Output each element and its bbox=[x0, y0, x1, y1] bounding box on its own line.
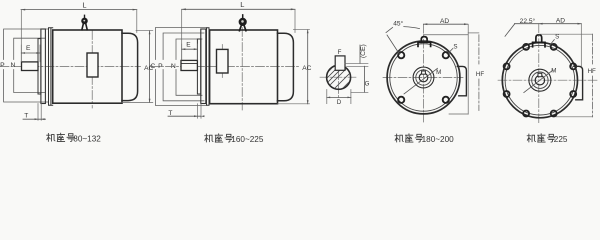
bottom tangent extension bbox=[556, 116, 593, 118]
bottom tangent extension bbox=[449, 113, 468, 115]
svg-text:P: P bbox=[0, 62, 5, 69]
dimension T bbox=[197, 104, 201, 119]
svg-text:AC: AC bbox=[302, 65, 311, 72]
bolt hole bottom-right bbox=[443, 97, 449, 103]
svg-text:AD: AD bbox=[440, 18, 449, 25]
svg-text:E: E bbox=[26, 45, 31, 52]
caption frame 80~132 bbox=[47, 133, 102, 143]
M diameter line bbox=[524, 70, 553, 93]
motor body bbox=[210, 30, 278, 104]
dimension E bbox=[182, 44, 198, 60]
key bbox=[335, 56, 345, 70]
flange outer circle bbox=[387, 41, 460, 114]
shaft with keyway bbox=[181, 60, 197, 70]
vertical center line of body bbox=[91, 31, 93, 109]
fan cover bbox=[278, 33, 294, 101]
terminal box profile bbox=[457, 66, 466, 95]
shaft section circle bbox=[327, 65, 351, 89]
motor body bbox=[53, 30, 122, 103]
svg-text:T: T bbox=[24, 112, 28, 119]
eyebolt on flange bbox=[536, 35, 542, 43]
S leader bbox=[448, 48, 453, 53]
svg-text:160~225: 160~225 bbox=[231, 135, 264, 144]
horizontal center line bbox=[0, 66, 141, 68]
svg-text:D: D bbox=[337, 99, 342, 106]
dimension AC bbox=[122, 31, 153, 103]
bolt hole top-right bbox=[443, 52, 449, 58]
dimension HF line bbox=[478, 35, 480, 111]
dimension AD with 22.5 underline bbox=[515, 23, 582, 25]
eyebolt bbox=[239, 15, 247, 31]
svg-text:(CE): (CE) bbox=[360, 44, 367, 58]
svg-text:AD: AD bbox=[556, 18, 565, 25]
bolt hole top-left bbox=[398, 52, 404, 58]
svg-text:L: L bbox=[240, 0, 244, 9]
bolt hole bottom-left bbox=[398, 97, 404, 103]
end shield rings bbox=[207, 28, 210, 106]
caption frame 180~200 bbox=[395, 134, 454, 144]
dimension AD bbox=[424, 23, 468, 25]
hub circles bbox=[529, 69, 551, 91]
shaft keyway notch bbox=[422, 71, 426, 74]
bracket C bbox=[156, 28, 207, 106]
terminal box profile bbox=[574, 66, 583, 100]
svg-text:45°: 45° bbox=[393, 20, 403, 28]
bracket N bbox=[14, 38, 45, 92]
svg-text:M: M bbox=[436, 69, 441, 76]
dimension G line bbox=[364, 66, 366, 92]
shaft section center lines bbox=[320, 76, 357, 78]
svg-text:HF: HF bbox=[476, 71, 484, 78]
svg-text:HF: HF bbox=[588, 68, 596, 75]
hub circles bbox=[413, 67, 434, 88]
bracket N bbox=[176, 39, 202, 95]
svg-text:180~200: 180~200 bbox=[422, 135, 455, 144]
bracket P bbox=[163, 33, 204, 101]
dimension L line bbox=[182, 8, 295, 10]
flange plate bbox=[201, 29, 206, 104]
svg-text:T: T bbox=[168, 110, 172, 117]
center lines bbox=[498, 79, 597, 81]
svg-text:80~132: 80~132 bbox=[73, 135, 101, 144]
terminal box rect bbox=[87, 53, 98, 77]
shaft keyway notch bbox=[538, 73, 542, 76]
front view center lines bbox=[383, 77, 463, 79]
dimension D line bbox=[327, 96, 351, 98]
dimension L extension right bbox=[136, 10, 138, 33]
svg-text:G: G bbox=[365, 81, 370, 88]
svg-text:N: N bbox=[11, 62, 16, 69]
bearing hub bbox=[197, 39, 200, 94]
dimension L extension left (shaft end) bbox=[20, 10, 22, 62]
S leader bbox=[550, 40, 555, 46]
terminal box center line bbox=[221, 45, 223, 79]
AD extension / right vertical bbox=[467, 24, 469, 114]
dimension D extensions bbox=[327, 90, 351, 104]
svg-text:22.5°: 22.5° bbox=[520, 17, 536, 25]
8 bolt holes bbox=[551, 44, 557, 50]
svg-text:E: E bbox=[186, 41, 191, 48]
bearing hub bbox=[38, 39, 41, 94]
dimension E bbox=[21, 45, 40, 62]
vertical center line of body bbox=[241, 28, 243, 111]
svg-text:S: S bbox=[555, 33, 559, 40]
terminal box rect bbox=[217, 49, 229, 73]
eyebolt on flange bbox=[421, 37, 427, 43]
dimension HF line bbox=[592, 34, 594, 117]
fan cover bbox=[122, 33, 138, 100]
horizontal center line bbox=[151, 66, 300, 68]
key top extension lines (CE) bbox=[345, 63, 368, 66]
22.5deg leader bbox=[505, 24, 515, 37]
M diameter line bbox=[404, 68, 438, 94]
svg-text:S: S bbox=[453, 44, 457, 51]
svg-text:F: F bbox=[338, 49, 342, 56]
flange inner ring bbox=[390, 44, 457, 111]
caption frame 225 bbox=[527, 134, 568, 144]
L extension lines bbox=[182, 9, 295, 60]
AD right extension bbox=[580, 24, 582, 66]
flange outer circle bbox=[502, 43, 577, 118]
dimension L line bbox=[21, 9, 137, 11]
dimension CE line bbox=[359, 45, 361, 63]
HF top reference line bbox=[539, 33, 593, 35]
dimension AC bbox=[278, 30, 310, 104]
caption frame 160~225 bbox=[205, 134, 264, 144]
svg-text:M: M bbox=[551, 68, 556, 75]
flange plate bbox=[41, 29, 46, 104]
bracket P bbox=[4, 29, 48, 102]
keyway line bbox=[181, 63, 197, 65]
eyebolt bbox=[81, 15, 88, 29]
end shield rings bbox=[49, 28, 53, 106]
shaft bbox=[22, 62, 39, 71]
svg-text:225: 225 bbox=[554, 135, 568, 144]
flange inner ring bbox=[505, 45, 575, 115]
45deg leader lines bbox=[386, 27, 420, 55]
HF top reference line bbox=[423, 34, 468, 36]
dimension T bbox=[38, 104, 41, 121]
svg-text:L: L bbox=[82, 0, 86, 9]
